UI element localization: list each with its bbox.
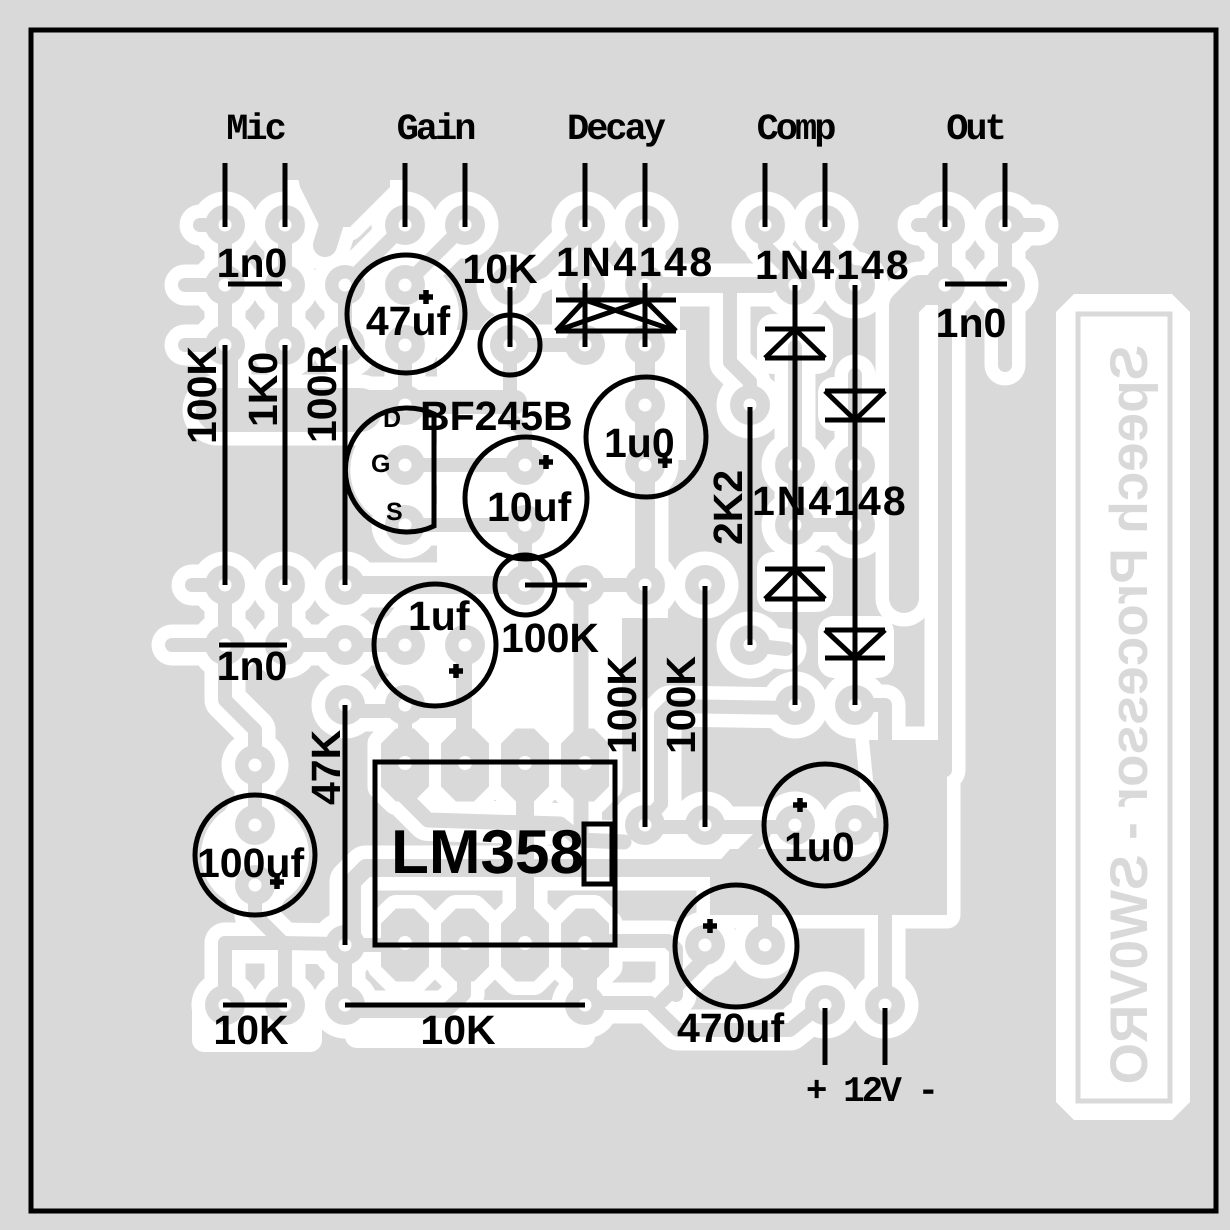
plus 100uf [270,875,284,889]
wire fet G to 10uf+ [405,458,525,472]
wire out+ wide stub [904,290,938,598]
diode1 side2 [795,329,825,358]
pin line x=765 [763,163,768,227]
svg-text:100R: 100R [299,345,345,443]
strip copper rectangle outline [1078,314,1170,1101]
wire pad to bus [224,360,238,392]
pot 10K circle [480,315,540,375]
svg-text:1K0: 1K0 [240,352,286,427]
svg-text:1n0: 1n0 [217,643,288,689]
ground pour bottom-right [710,740,947,915]
svg-text:Speech Processor - SW0VRO: Speech Processor - SW0VRO [1100,345,1159,1084]
pin -12V line [883,1008,888,1065]
diode2 side2 [855,391,885,420]
diode D1 lead [583,283,588,347]
wire pot to 10uf+ [510,345,525,465]
diode base bottom [556,329,676,334]
resistor 100K left [223,345,228,585]
svg-text:Comp: Comp [757,109,836,151]
wire gain+ diagonal [345,225,405,285]
wire to 100R top [338,285,352,345]
wire 47uf- to fet D [398,345,412,405]
resistor 1K0 [283,345,288,585]
wire to 10K left2 [278,943,292,1005]
pad IC pin 525,765 [501,729,549,802]
diode3 bar [765,567,825,572]
wire 2K2 bottom stub [750,645,786,649]
wire out- vertical [998,225,1012,365]
wire 47K to 10K [338,945,352,1005]
diode4 side1 [825,630,855,658]
pad IC pin 465,945 [441,909,489,982]
svg-text:+ 12V -: + 12V - [806,1071,936,1112]
wire 1uf+ down [456,645,472,760]
capacitor 10uf [465,437,587,559]
svg-text:1n0: 1n0 [217,240,288,286]
plus 470uf [703,919,717,933]
svg-text:470uf: 470uf [677,1005,784,1051]
wire comp+ jog [765,225,795,285]
wire diode col2 [848,375,862,525]
wire pin585 neck [573,945,597,1005]
capacitor 1u0 top [586,377,706,497]
wire decay pin [578,225,592,285]
svg-text:G: G [371,450,390,478]
wire decay pin2 [638,225,652,285]
svg-text:10K: 10K [420,1007,496,1053]
wire mic+ pin to pad [218,225,232,285]
svg-text:10K: 10K [462,246,538,292]
svg-text:47uf: 47uf [366,298,451,344]
pin line x=285 [283,163,288,227]
wire 10K to pin465 [345,947,464,1011]
wire band diag to 1u0+ [733,833,764,864]
funnel wedge top-middle [294,158,390,227]
diode1 bar [765,327,825,332]
wire band1 pin4 east [404,796,624,842]
diode bar top [556,298,676,303]
svg-text:Mic: Mic [226,109,285,151]
wire row525 [795,518,855,532]
svg-text:10uf: 10uf [487,484,572,530]
diode chain1 line [793,285,798,705]
transistor BF245B outline [345,408,434,532]
capacitor 47uf [347,255,465,373]
resistor 2K2 [748,407,753,645]
diode diag4 [645,300,676,331]
pin line x=405 [403,163,408,227]
svg-text:D: D [383,405,401,433]
wire stub left row645 [172,638,225,652]
pad IC pin 525,945 [501,909,549,982]
wire to +12V [593,1003,817,1030]
plus 1u0 right [793,798,807,812]
svg-text:100K: 100K [501,615,599,661]
wire to 2K2 top [730,285,750,405]
wire 47K to band east [352,868,724,932]
wire fet S to 10uf- [405,518,525,532]
wire pin column 525 [516,765,534,945]
svg-text:1N4148: 1N4148 [755,242,911,288]
wire 1n0 to 1K0 [278,285,292,345]
diode2 bar [825,418,885,423]
svg-text:Decay: Decay [567,109,666,151]
wire out+ long vertical [938,225,952,770]
diode3 side2 [795,569,825,599]
pot 10K line [508,287,513,347]
capacitor 100uf [195,795,315,915]
svg-text:1uf: 1uf [408,593,470,639]
svg-text:1N4148: 1N4148 [556,239,715,285]
wire diode bot west [646,706,795,821]
silkscreen strip white region [1056,294,1190,1120]
wire decay pin to pot top [512,228,585,286]
diode diag3 [556,300,645,331]
svg-text:47K: 47K [303,729,349,805]
svg-text:2K2: 2K2 [705,470,751,545]
svg-text:1n0: 1n0 [936,300,1007,346]
pad IC pin 585,765 [561,729,609,802]
resistor 10K mid line [345,1003,585,1008]
wire 47K to pin405b [345,938,405,952]
wire diode col1 [788,347,802,525]
op-amp tab [584,824,612,884]
diode2 base [825,389,885,394]
wire stub left row285 [185,278,225,292]
copper layer [172,213,1038,1030]
capacitor 1uf [374,584,496,706]
op-amp LM358 outline [375,762,615,945]
pin line x=645 [643,163,648,227]
resistor 10K bl line [223,1003,287,1008]
wire bus thin east [355,390,515,414]
capacitor 470uf [675,885,797,1007]
svg-text:BF245B: BF245B [420,393,573,439]
wire pour to 470uf- [758,905,772,945]
plus 1uf [449,664,463,678]
svg-text:100uf: 100uf [197,840,304,886]
svg-text:S: S [386,498,403,526]
wire row943 [225,943,338,944]
wire pin1 neck to band1 [574,798,589,835]
diode4 side2 [855,630,885,658]
wire row285 east [645,277,770,293]
wire diode bot to pour [855,705,885,772]
wire row585 [585,578,645,592]
wire 1u0- to pour [855,818,900,832]
wire to 10K left [218,943,232,1005]
wire row645 [285,638,405,652]
wire stub left row585 [192,578,225,592]
svg-text:1u0: 1u0 [784,824,855,870]
wire 100uf+ up [248,765,262,825]
diode3 side1 [765,569,795,599]
wire v 225 [218,585,232,645]
wire comp- jog [825,225,855,285]
svg-text:LM358: LM358 [391,818,584,887]
svg-text:Gain: Gain [397,109,475,151]
wire stub east out- [1005,218,1038,232]
pad IC pin 465,765 [441,729,489,802]
wire pot to diode base [512,338,583,352]
wire 47uf+ to gain- [405,225,465,285]
capacitor 1n0 mic line [228,282,282,287]
wire wedge stub [325,213,335,245]
wire stub left of mic+ [200,218,225,232]
pin +12V line [823,1008,828,1065]
pin line x=465 [463,163,468,227]
copper clearance (etch) layer [172,158,1038,1030]
wire wide bus left [218,388,360,432]
wire v 285 [278,585,292,645]
svg-text:10K: 10K [213,1007,289,1053]
capacitor 1u0 right [764,764,886,886]
pad IC pin 585,945 [561,909,609,982]
pin line x=1005 [1003,163,1008,227]
svg-text:Out: Out [946,109,1004,151]
svg-text:100K: 100K [658,656,704,754]
resistor 100K mid line [525,583,587,588]
plus 1u0 top [658,454,672,468]
pin line x=225 [223,163,228,227]
diode1 side1 [765,329,795,358]
wire stub left row345 [185,338,225,352]
wire pour to -12V [878,905,892,1005]
wire 100R bottom east [345,576,525,594]
diode1 base [765,356,825,361]
resistor 100K v2 [703,586,708,827]
pin line x=585 [583,163,588,227]
wire 1n0 to 100K [218,285,232,345]
wire 100uf- down [255,885,283,943]
pad IC pin 405,765 [381,729,429,802]
diode3 base [765,597,825,602]
wire pin585 east [585,941,676,995]
pin line x=945 [943,163,948,227]
wire 585 column [574,592,589,765]
resistor 47K [343,705,348,945]
diode D2 lead [643,283,648,347]
diode chain2 line [853,285,858,705]
diode diag2 [585,300,676,331]
resistor 100K v1 [643,586,648,827]
svg-text:1N4148: 1N4148 [752,478,908,524]
resistor 100R [343,345,348,585]
plus 47uf [419,290,433,304]
wire 470uf+ to 12V net [662,948,705,1001]
pin line x=825 [823,163,828,227]
wire stub west out+ [918,218,945,232]
diode4 base [825,628,885,633]
wire 1u0 column [635,345,655,585]
wire 1n0 to 100uf+ [225,645,255,768]
diode4 bar [825,656,885,661]
wire mic- pin to pad [278,225,292,285]
wire pin 405 up [398,705,412,765]
diode2 side1 [825,391,855,420]
wire 10uf- down [518,525,532,585]
pad IC pin 405,945 [381,909,429,982]
capacitor 1n0 bl line [219,643,287,648]
plus 10uf [539,455,553,469]
resistor 100K mid circle [495,555,555,615]
wire 47K junction [345,704,464,718]
svg-text:100K: 100K [179,346,225,444]
diode diag1 [556,300,585,331]
wire row825 [645,820,795,834]
svg-text:100K: 100K [599,656,645,754]
capacitor 1n0 out line [945,282,1007,287]
